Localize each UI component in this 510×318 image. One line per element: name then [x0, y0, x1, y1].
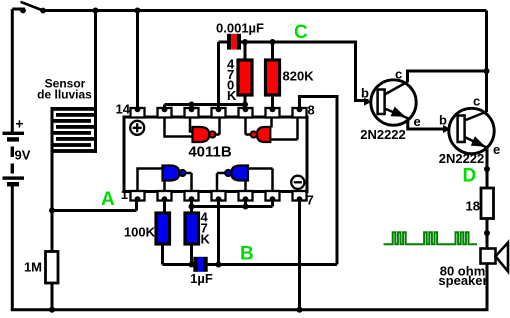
- pin 1: [121, 187, 145, 202]
- wire 1M to bottom rail: [51, 283, 54, 310]
- svg-text:2N2222: 2N2222: [439, 151, 485, 166]
- svg-text:1M: 1M: [24, 260, 42, 275]
- NAND gate U1A (blue, right): [163, 166, 186, 181]
- junction dot top bus pin12: [189, 102, 195, 108]
- NAND gate U1C (red, left): [251, 127, 271, 142]
- junction dot top bus 470K/pin10: [242, 102, 248, 108]
- resistor 18: [466, 188, 494, 219]
- transistor Q1 2N2222: [360, 67, 421, 143]
- svg-text:1µF: 1µF: [190, 271, 213, 286]
- NAND gate U1B (blue, left): [225, 166, 248, 181]
- NAND gate U1C wires (pins 8,9 in, 10 out): [246, 118, 298, 140]
- resistor 820K: [266, 60, 315, 95]
- wire pin3 down junction: [190, 199, 193, 213]
- wire sensor top vertical: [94, 11, 97, 153]
- junction dot speaker top: [484, 230, 490, 236]
- wire right top vertical: [485, 11, 488, 113]
- capacitor C1 0.001uF: [216, 21, 264, 50]
- wire sensor left down to node A and 1M: [51, 109, 54, 252]
- junction dot C1-470K: [242, 39, 248, 45]
- svg-text:b: b: [361, 86, 369, 101]
- junction dot Q1 collector rail: [484, 68, 490, 74]
- svg-text:A: A: [101, 189, 115, 210]
- wire node A horizontal: [52, 200, 137, 211]
- resistor 47K: [185, 210, 211, 247]
- wire battery bottom to rail: [11, 186, 14, 310]
- junction dot node D: [484, 166, 490, 172]
- svg-text:D: D: [463, 166, 477, 187]
- resistor 1M: [24, 252, 58, 284]
- junction dot rail-sensor: [93, 8, 99, 14]
- svg-text:B: B: [240, 244, 254, 265]
- wire node B horizontal: [163, 263, 338, 266]
- wire Q1 emitter to Q2 base: [408, 119, 445, 130]
- junction dot pin3 bus: [189, 204, 195, 210]
- svg-text:100K: 100K: [124, 225, 156, 240]
- svg-text:14: 14: [116, 102, 131, 117]
- junction dot rail-pin14: [135, 8, 141, 14]
- svg-text:K: K: [227, 88, 237, 103]
- NAND gate U1D wires (pins 12,13 in, 11 out): [165, 118, 220, 137]
- capacitor C2 1uF: [190, 257, 213, 286]
- pin 3: [185, 191, 199, 202]
- svg-text:de lluvias: de lluvias: [37, 88, 92, 102]
- speaker SP1: [438, 243, 508, 289]
- junction dot pin4 node B: [216, 262, 222, 268]
- wire C node horizontal from cap to Q1 base: [241, 42, 369, 101]
- wire 100K bottom to node B: [161, 244, 164, 265]
- svg-text:820K: 820K: [283, 69, 315, 84]
- IC U1 4011B body: [124, 117, 307, 192]
- wire top rail main: [43, 9, 487, 12]
- svg-text:c: c: [473, 94, 480, 109]
- wire pin14 to rail: [136, 11, 139, 109]
- wire 820K top: [271, 42, 274, 60]
- svg-text:speaker: speaker: [438, 273, 487, 288]
- pin 12: [185, 106, 199, 117]
- switch S1: [20, 2, 46, 14]
- wire pin7 down to bottom rail: [298, 199, 301, 310]
- wire 470K top: [244, 42, 247, 60]
- wire pin4 down to node B: [217, 199, 220, 265]
- svg-text:7: 7: [307, 193, 314, 208]
- resistor 470K: [227, 57, 252, 104]
- svg-text:+: +: [15, 116, 23, 132]
- waveform annotation: [384, 232, 478, 244]
- junction dot pin5 bus: [243, 204, 249, 210]
- wire cap left to pin11 vertical: [219, 42, 228, 109]
- battery B1 9V: [3, 116, 31, 187]
- svg-text:18: 18: [466, 199, 480, 214]
- junction dot 820K top: [270, 39, 276, 45]
- svg-text:e: e: [493, 142, 500, 157]
- svg-text:b: b: [439, 113, 447, 128]
- wire bottom rail: [11, 308, 489, 311]
- pin 6: [266, 191, 280, 202]
- rain sensor (Sensor de lluvias): [37, 77, 97, 153]
- pin 5: [239, 191, 253, 202]
- pin 9: [266, 106, 280, 117]
- wire pins 3-5-6 bus: [192, 199, 273, 207]
- junction dot pin7 bottom rail: [297, 307, 303, 313]
- svg-text:C: C: [294, 22, 308, 43]
- junction dot 47K node B: [189, 262, 195, 268]
- pin 7: [293, 191, 314, 208]
- minus marker inside IC: [291, 176, 304, 189]
- wire pin8 up over to node B vertical: [300, 97, 338, 265]
- pin 2: [158, 191, 172, 202]
- svg-text:9V: 9V: [15, 148, 31, 163]
- svg-text:4011B: 4011B: [188, 144, 232, 161]
- pin 10: [239, 106, 253, 117]
- pin 4: [212, 191, 226, 202]
- resistor 100K: [124, 213, 170, 244]
- pin 13: [158, 106, 172, 117]
- transistor Q2 2N2222: [439, 94, 501, 167]
- wire Q2 emitter down through R18 and speaker: [486, 149, 489, 310]
- plus marker inside IC: [130, 121, 144, 135]
- svg-text:0.001µF: 0.001µF: [216, 21, 264, 36]
- NAND gate U1D (red, right): [193, 127, 216, 142]
- wire top rail left segment: [12, 8, 25, 11]
- NAND gate U1A wires (pins 1,2 in, 3 out): [138, 169, 192, 191]
- wire 47K bottom to node B: [190, 244, 193, 265]
- wire left battery rail: [11, 9, 14, 132]
- junction dot 1M bottom rail: [49, 307, 55, 313]
- svg-text:2N2222: 2N2222: [360, 127, 406, 142]
- pin 8: [293, 103, 315, 118]
- wire top pin bus pins 13-10: [165, 105, 247, 110]
- NAND gate U1B wires (pins 5,6 in, 4 out): [217, 169, 273, 191]
- pin 11: [212, 106, 226, 117]
- wire 820K bottom to pin9: [271, 95, 274, 109]
- pin 14: [116, 102, 145, 118]
- wire Q1 collector up and right: [408, 71, 487, 82]
- svg-text:K: K: [201, 232, 211, 247]
- svg-text:8: 8: [308, 103, 315, 118]
- wire pin2 to 100K: [163, 199, 166, 213]
- junction dot node A: [49, 208, 55, 214]
- svg-text:1: 1: [121, 187, 128, 202]
- wire 470K bottom to pin10: [244, 95, 247, 109]
- svg-text:c: c: [395, 67, 402, 82]
- svg-text:e: e: [414, 114, 421, 129]
